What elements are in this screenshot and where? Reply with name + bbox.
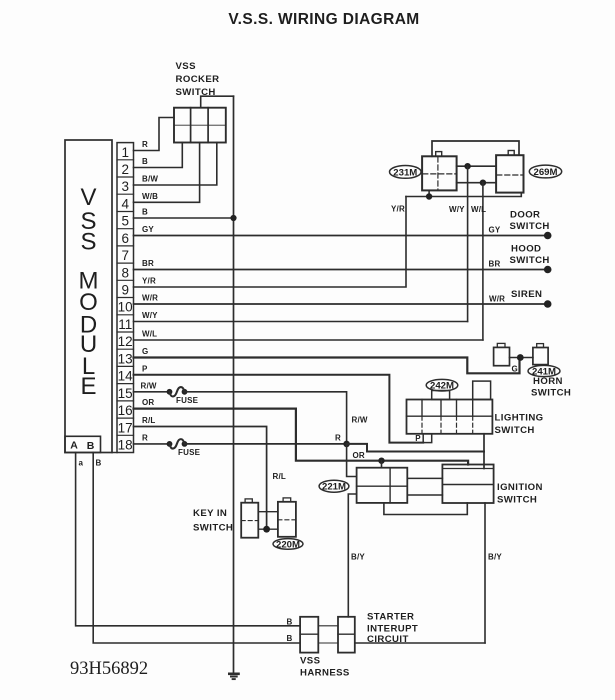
svg-text:1: 1 <box>121 145 129 160</box>
wire pin9 Y/R to relay 231M <box>134 197 407 288</box>
key in switch label <box>193 508 233 534</box>
svg-text:3: 3 <box>121 179 129 194</box>
svg-text:P: P <box>415 434 421 443</box>
svg-text:A: A <box>70 440 78 452</box>
node junction R <box>343 441 350 448</box>
svg-text:SIREN: SIREN <box>511 289 542 300</box>
connector oval 231M <box>390 166 422 179</box>
hood switch label <box>510 244 550 267</box>
lighting switch label <box>495 413 544 437</box>
svg-text:231M: 231M <box>393 167 417 178</box>
wire relay bottom Y/R bus <box>406 193 521 197</box>
horn switch S2 box <box>533 344 548 365</box>
wire horn link <box>510 357 533 359</box>
VSS module U1 box <box>65 140 117 453</box>
wire pin10 W/R to siren <box>134 303 548 305</box>
svg-text:B: B <box>287 617 293 626</box>
svg-text:17: 17 <box>118 420 133 435</box>
connector oval 269M <box>529 165 561 178</box>
wire key in link upper <box>258 511 278 513</box>
svg-text:OR: OR <box>353 451 365 460</box>
wire OR stub to ignition switch top <box>381 461 383 468</box>
node junction relay bottom <box>426 193 432 199</box>
svg-text:VSS: VSS <box>300 656 321 667</box>
relay K1 231M box <box>422 152 457 191</box>
svg-text:W/L: W/L <box>471 205 486 214</box>
ignition switch S4 right box <box>442 465 493 504</box>
svg-text:B: B <box>142 208 148 217</box>
VSS rocker switch S1 box <box>174 108 226 143</box>
svg-text:R/L: R/L <box>273 472 287 481</box>
svg-text:V: V <box>80 184 96 211</box>
svg-text:LIGHTING: LIGHTING <box>495 413 544 424</box>
svg-text:5: 5 <box>121 214 129 229</box>
horn switch label <box>531 376 571 399</box>
connector oval 220M <box>273 539 303 551</box>
svg-text:KEY IN: KEY IN <box>193 508 227 519</box>
svg-text:GY: GY <box>489 226 501 235</box>
svg-text:IGNITION: IGNITION <box>497 482 543 493</box>
svg-text:W/Y: W/Y <box>142 311 158 320</box>
node door switch terminal <box>544 232 552 240</box>
wire pin12 W/L to relay link <box>134 339 483 341</box>
svg-text:14: 14 <box>118 369 134 384</box>
wire relay link W/L <box>457 182 497 184</box>
svg-text:18: 18 <box>118 438 133 453</box>
node junction W/Y <box>464 163 470 169</box>
svg-text:GY: GY <box>142 225 154 234</box>
relay K2 269M box <box>496 151 523 193</box>
svg-text:2: 2 <box>121 162 129 177</box>
door switch label <box>510 210 550 233</box>
wire pin18 R to fuse <box>134 443 169 445</box>
connector oval 221M <box>319 480 349 493</box>
svg-text:R: R <box>335 433 341 442</box>
wire rocker switch top to ground rail <box>201 96 234 108</box>
node junction horn G <box>517 354 524 361</box>
node hood switch terminal <box>544 266 552 274</box>
wire R/W fuse to junction R <box>186 392 347 444</box>
wire key in link lower <box>258 528 278 530</box>
svg-text:R: R <box>142 140 148 149</box>
svg-text:B: B <box>142 157 148 166</box>
svg-text:15: 15 <box>118 386 133 401</box>
wire pin17 R/L to key in switch <box>134 427 267 530</box>
svg-text:V.S.S. WIRING DIAGRAM: V.S.S. WIRING DIAGRAM <box>228 11 419 28</box>
svg-text:FUSE: FUSE <box>176 396 199 405</box>
node junction pin5/ground rail <box>230 215 236 221</box>
svg-text:9: 9 <box>121 283 129 298</box>
svg-text:W/B: W/B <box>142 192 158 201</box>
svg-text:B/Y: B/Y <box>488 553 502 562</box>
svg-text:ROCKER: ROCKER <box>176 74 220 85</box>
svg-text:FUSE: FUSE <box>178 448 201 457</box>
svg-text:6: 6 <box>121 231 129 246</box>
connector oval 241M <box>528 365 560 377</box>
wire starter link lower <box>318 642 338 644</box>
wire ignition link upper <box>407 477 442 479</box>
svg-text:R/W: R/W <box>141 381 157 390</box>
svg-text:SWITCH: SWITCH <box>510 255 550 266</box>
svg-text:221M: 221M <box>322 482 346 493</box>
wire ground rail vertical <box>233 96 235 674</box>
svg-text:Y/R: Y/R <box>391 205 405 214</box>
svg-text:E: E <box>80 373 96 400</box>
starter interrupt left box <box>300 617 318 653</box>
svg-text:B: B <box>287 634 293 643</box>
svg-text:INTERUPT: INTERUPT <box>367 623 418 634</box>
wire pin16 OR to ignition switch <box>134 409 469 465</box>
wire relay link W/Y <box>457 165 497 167</box>
horn switch companion box <box>494 343 510 365</box>
wire pin13 G to horn switch <box>134 358 520 374</box>
svg-text:B/W: B/W <box>142 175 158 184</box>
wire pin11 W/Y to relay link <box>134 321 468 323</box>
node siren terminal <box>544 300 552 308</box>
wire B/Y left from ignition to starter box <box>348 494 356 617</box>
lighting switch S3 box <box>407 381 493 442</box>
wire pin15 R/W to fuse <box>134 391 169 393</box>
svg-text:W/R: W/R <box>489 295 505 304</box>
ground symbol <box>229 674 238 679</box>
key in switch S5 left box <box>241 499 258 538</box>
svg-text:R/L: R/L <box>142 416 156 425</box>
wire B/Y right from ignition down <box>484 503 486 643</box>
node junction key in R/L <box>263 526 270 533</box>
svg-text:B: B <box>87 440 95 452</box>
svg-text:SWITCH: SWITCH <box>510 221 550 232</box>
svg-text:P: P <box>142 364 148 373</box>
wire ignition link lower <box>407 494 442 496</box>
connector A B <box>65 436 101 452</box>
svg-text:HARNESS: HARNESS <box>300 668 350 679</box>
svg-text:B: B <box>96 459 102 468</box>
wire R fuse to junction <box>186 443 347 445</box>
wire pin1 R to rocker switch <box>134 118 175 151</box>
VSS rocker switch S1 label <box>176 61 220 98</box>
svg-text:7: 7 <box>121 248 129 263</box>
svg-text:G: G <box>142 347 148 356</box>
svg-text:220M: 220M <box>276 539 300 550</box>
VSS harness label <box>300 656 350 679</box>
svg-text:BR: BR <box>489 260 501 269</box>
svg-text:R/W: R/W <box>352 416 368 425</box>
starter interrupt right box <box>338 617 355 653</box>
wire R junction to ignition switch left <box>347 444 357 477</box>
wire relay 231M bottom stub <box>428 190 430 196</box>
svg-text:a: a <box>79 459 84 468</box>
svg-text:SWITCH: SWITCH <box>495 425 535 436</box>
wire R junction to lighting switch bottom <box>347 444 484 452</box>
svg-text:12: 12 <box>118 334 133 349</box>
wire W/L vertical to pin12 <box>482 183 484 340</box>
svg-text:8: 8 <box>121 265 129 280</box>
svg-text:13: 13 <box>118 351 133 366</box>
wire pin4 W/B to rocker switch <box>134 143 200 203</box>
wire pin8 BR to hood switch <box>134 269 548 271</box>
svg-text:4: 4 <box>121 196 129 211</box>
svg-text:SWITCH: SWITCH <box>193 523 233 534</box>
svg-text:W/Y: W/Y <box>449 205 465 214</box>
wire module A to starter box <box>76 453 301 626</box>
svg-text:242M: 242M <box>430 381 454 392</box>
ignition switch S4 left box <box>357 468 408 503</box>
svg-text:S: S <box>80 229 96 256</box>
wire pin2 B to rocker switch <box>134 143 183 168</box>
wire pin14 P to lighting switch <box>134 375 424 443</box>
svg-text:10: 10 <box>118 300 133 315</box>
svg-text:B/Y: B/Y <box>351 553 365 562</box>
svg-text:Y/R: Y/R <box>142 277 156 286</box>
svg-text:269M: 269M <box>534 167 558 178</box>
ignition switch label <box>497 482 543 506</box>
svg-text:CIRCUIT: CIRCUIT <box>367 634 409 645</box>
svg-text:BR: BR <box>142 259 154 268</box>
wire lighting switch to ignition switch vertical <box>483 434 485 469</box>
wire pin3 B/W to rocker switch <box>134 143 217 186</box>
svg-text:VSS: VSS <box>176 61 197 72</box>
svg-text:HORN: HORN <box>533 376 563 387</box>
wire ignition bottom U link <box>384 503 467 515</box>
VSS module pin header strip pins 1-18 <box>117 143 134 453</box>
key in switch S5 right box <box>278 498 296 537</box>
wire relay top loop <box>432 141 519 156</box>
fuse F2 <box>167 439 201 457</box>
svg-text:G: G <box>512 365 518 374</box>
svg-text:OR: OR <box>142 398 154 407</box>
svg-text:11: 11 <box>118 317 132 332</box>
svg-text:SWITCH: SWITCH <box>497 495 537 506</box>
svg-text:SWITCH: SWITCH <box>531 388 571 399</box>
node junction W/L <box>480 180 486 186</box>
wire starter link upper <box>318 625 338 627</box>
svg-text:W/R: W/R <box>142 294 158 303</box>
wire pin6 GY to door switch <box>134 235 548 237</box>
wire starter to ignition B/Y bottom <box>355 642 485 644</box>
connector oval 242M <box>426 379 458 391</box>
svg-text:R: R <box>142 433 148 442</box>
svg-text:16: 16 <box>118 403 133 418</box>
svg-text:93H56892: 93H56892 <box>70 659 148 679</box>
fuse F1 <box>167 387 199 405</box>
svg-text:DOOR: DOOR <box>510 210 540 221</box>
svg-text:HOOD: HOOD <box>511 244 541 255</box>
wire W/Y vertical to pin11 <box>467 166 469 321</box>
svg-text:W/L: W/L <box>142 330 157 339</box>
wire pin5 B to ground rail <box>134 217 234 219</box>
starter interrupt circuit label <box>367 612 418 645</box>
svg-text:STARTER: STARTER <box>367 612 414 623</box>
node junction OR / ignition stub <box>378 458 384 464</box>
wire module B to starter box <box>93 453 300 644</box>
